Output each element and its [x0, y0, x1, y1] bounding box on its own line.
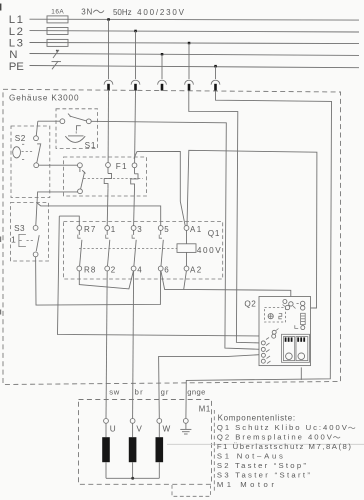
node L3 label [9, 38, 23, 50]
pin label 5 [164, 225, 169, 234]
S3 button actuator [11, 234, 34, 246]
pushbutton S3 dashed box [11, 203, 49, 262]
wire S3 bottom to contact 6 [36, 257, 161, 305]
wire contact 4 down to motor V [133, 271, 134, 419]
svg-text:W: W [163, 425, 171, 434]
pin label R7 [84, 225, 96, 234]
edge mark left middle [0, 237, 1, 243]
svg-text:16A: 16A [51, 8, 64, 15]
motor M1 dashed box [79, 400, 212, 485]
junction L1 tap [107, 18, 110, 21]
wire label gr [161, 387, 169, 396]
contact R7-R8 brake contact [77, 226, 82, 271]
svg-text:50Hz: 50Hz [113, 8, 132, 17]
wire S1 left down to S2 [36, 121, 38, 135]
F1 heater element L1 [104, 163, 111, 189]
connector X1 L1 [104, 80, 113, 90]
svg-text:L3: L3 [9, 38, 23, 50]
svg-text:Q2: Q2 [244, 299, 256, 308]
motor terminal U [104, 419, 116, 434]
wire label sw [109, 387, 120, 396]
wire F1 aux bottom left then down to S3 [36, 192, 78, 226]
S1 latch mechanism [76, 126, 81, 135]
fuse F-L3 [47, 39, 68, 46]
wire S2-corner to S1 left terminal [38, 120, 60, 122]
N conductor marker slash [53, 50, 59, 58]
F1 auxiliary NC contact 95-96 [78, 163, 86, 194]
connector X1 L2 [131, 80, 140, 90]
wire Q2 bottom to PE rail junction [300, 367, 302, 380]
S1 mushroom head [65, 136, 85, 143]
contact 1-2 main L1 [105, 226, 110, 271]
motor box bottom notch dashed [172, 485, 211, 496]
svg-text:V: V [136, 424, 142, 433]
svg-text:A1: A1 [190, 225, 202, 234]
pin label 3 [137, 225, 142, 234]
wire label br [135, 387, 143, 396]
node N label [9, 49, 17, 61]
label Q1 [208, 229, 220, 238]
connector X1 PE [211, 80, 220, 90]
svg-text:M1: M1 [199, 405, 210, 414]
wire L2 line [30, 31, 360, 32]
Q2 dashed sub box [265, 308, 286, 323]
svg-text:gr: gr [161, 387, 169, 396]
wire R7 feed to Q2 terminal [58, 216, 270, 336]
motor winding W [156, 423, 164, 478]
edge mark left lower [0, 310, 1, 315]
Q1 mechanical linkage dashed [79, 247, 188, 249]
fuse F-L1 [47, 16, 68, 23]
junction PE tap [214, 65, 217, 68]
wire R8 to contact 4 [79, 271, 133, 289]
wire A2 node to Q2 top [184, 289, 291, 301]
Q2 mid circle [272, 329, 278, 335]
wire feed to R7 [59, 216, 79, 226]
svg-text:2: 2 [111, 265, 116, 274]
connector X1 N [158, 80, 167, 90]
scan artifact line [167, 443, 364, 445]
label S1 [85, 141, 96, 150]
component list dashed border [213, 410, 215, 491]
contact 5-6 holding [158, 226, 163, 271]
label 3N~ 50Hz 400/230V [81, 8, 184, 17]
svg-text:S1: S1 [85, 141, 96, 150]
wire A1 to Q2 output (seg B) [187, 150, 317, 308]
wire contact 2 down to motor U [106, 271, 107, 419]
junction L2 tap [134, 30, 137, 33]
svg-text:L1: L1 [9, 14, 23, 26]
Q2 right terminals pair [297, 301, 305, 310]
wire label gnge [187, 387, 205, 396]
overload relay F1 dashed box [64, 157, 147, 196]
Q2 resistor [295, 313, 305, 329]
svg-text:3: 3 [137, 225, 142, 234]
wire F1 L2 output to contact 3 [133, 189, 136, 226]
Q2 input component cluster top [283, 300, 296, 310]
motor star point wire [106, 477, 159, 479]
wire contact 6 to A2 jumper [161, 271, 187, 290]
junction star point [131, 477, 134, 480]
list item F1 [217, 442, 351, 451]
connector X1 L3 [185, 80, 194, 90]
svg-text:F1 Überlastschutz M7,8A(8): F1 Überlastschutz M7,8A(8) [217, 442, 351, 451]
wire PE line [30, 66, 360, 68]
svg-text:F1: F1 [116, 162, 127, 171]
svg-text:br: br [135, 387, 143, 396]
svg-text:R7: R7 [84, 225, 96, 234]
list item Q1 [217, 423, 355, 432]
label S2 [15, 134, 26, 143]
value label 400V [197, 246, 221, 255]
svg-text:S3: S3 [14, 224, 25, 233]
label F1 [116, 162, 127, 171]
svg-text:400V: 400V [197, 246, 221, 255]
label Komponentenliste [218, 413, 296, 422]
ground symbol motor PE [180, 423, 191, 434]
svg-text:Q2 Bremsplatine 400V: Q2 Bremsplatine 400V [217, 432, 333, 441]
junction L3 tap [188, 42, 191, 45]
wire L2 tap to A1 [134, 151, 185, 225]
pin label R8 [84, 265, 96, 274]
motor winding U [102, 423, 110, 478]
switch S2 contact [34, 136, 42, 168]
Q2 relay block [282, 334, 310, 362]
svg-text:L2: L2 [9, 26, 23, 38]
pushbutton S2 dashed box [11, 126, 50, 198]
list item M1 [217, 480, 274, 489]
value label 16A [51, 8, 64, 15]
pin label 1 [111, 225, 116, 234]
wire L1 drop [108, 20, 110, 80]
pin label A2 [190, 265, 202, 274]
wire L3 line [30, 43, 360, 44]
contact 3-4 main L2 [131, 226, 136, 271]
label Gehäuse K3000 [9, 94, 79, 103]
svg-text:sw: sw [109, 387, 120, 396]
wire F1 L1 output to contact 1 [106, 188, 109, 225]
motor terminal V [130, 419, 142, 434]
svg-text:6: 6 [164, 265, 169, 274]
svg-text:PE: PE [9, 61, 24, 73]
pin label A1 [190, 225, 202, 234]
brake board Q2 [259, 297, 311, 366]
svg-text:N: N [9, 49, 17, 61]
wire tap to holding contact 5 [37, 203, 161, 226]
enclosure Gehäuse K3000 dashed box [3, 89, 341, 384]
PE conductor marker slash [52, 61, 62, 69]
node PE label [9, 61, 24, 73]
switch S3 contact [33, 226, 39, 257]
pin label 2 [111, 265, 116, 274]
coil terminal A1 [184, 226, 189, 231]
edge mark top-left [0, 4, 1, 11]
wire N line [30, 54, 360, 56]
coil Q1 400V [177, 230, 196, 266]
wire L2 connector to F1 [134, 91, 137, 163]
svg-text:S2 Taster “Stop”: S2 Taster “Stop” [217, 461, 306, 470]
wire S2 bottom to F1 aux contact [39, 164, 78, 166]
wire L3 drop [188, 43, 190, 79]
svg-text:1: 1 [111, 225, 116, 234]
fuse F-L2 [47, 28, 68, 35]
label Q2 [244, 299, 256, 308]
F1 heater element L2 [131, 163, 138, 189]
coil terminal A2 [184, 266, 189, 271]
list item S3 [217, 471, 310, 480]
wire Q2 to motor W [159, 355, 262, 419]
list item S2 [217, 461, 306, 470]
Q2 symbol circle-plus [268, 314, 273, 319]
Q2 small squiggle [279, 314, 282, 319]
emergency-stop S1 dashed box [56, 109, 98, 149]
list item Q2 [217, 432, 340, 441]
wire N drop [161, 54, 163, 79]
motor terminal W [157, 419, 171, 434]
wire S1 right to Q2 input (long horizontal) [91, 121, 260, 349]
wire L2 drop [135, 31, 137, 79]
wire PE connector to motor ground rail [186, 91, 332, 419]
switch S1 NC contact [60, 114, 91, 124]
svg-text:Q1: Q1 [208, 229, 220, 238]
motor winding V [129, 423, 137, 478]
node L1 label [9, 14, 23, 26]
label S3 [14, 224, 25, 233]
F1 mechanical linkage dashed [84, 178, 144, 180]
Q2 left terminal strip [261, 334, 275, 363]
svg-text:U: U [110, 424, 116, 433]
svg-text:Gehäuse K3000: Gehäuse K3000 [9, 94, 79, 103]
svg-text:5: 5 [164, 225, 169, 234]
wire L1 line [30, 18, 360, 21]
svg-text:R8: R8 [84, 265, 96, 274]
pin label 4 [137, 265, 142, 274]
junction N tap [161, 53, 164, 56]
list item S1 [217, 452, 283, 461]
S2 button actuator [13, 144, 34, 159]
label M1 [199, 405, 210, 414]
wire L3 connector to Q2 [189, 91, 260, 343]
contactor Q1 dashed box [64, 222, 223, 279]
pin label 6 [164, 265, 169, 274]
svg-text:4: 4 [137, 265, 142, 274]
svg-text:A2: A2 [190, 265, 202, 274]
svg-text:1: 1 [11, 234, 16, 244]
wire L1 connector to F1 [107, 91, 109, 163]
node L2 label [9, 26, 23, 38]
svg-text:3N: 3N [81, 8, 92, 17]
wire PE drop [215, 66, 217, 79]
svg-text:S2: S2 [15, 134, 26, 143]
motor terminal PE [183, 419, 188, 424]
svg-text:gnge: gnge [187, 387, 205, 396]
svg-text:Komponentenliste:: Komponentenliste: [218, 413, 296, 422]
